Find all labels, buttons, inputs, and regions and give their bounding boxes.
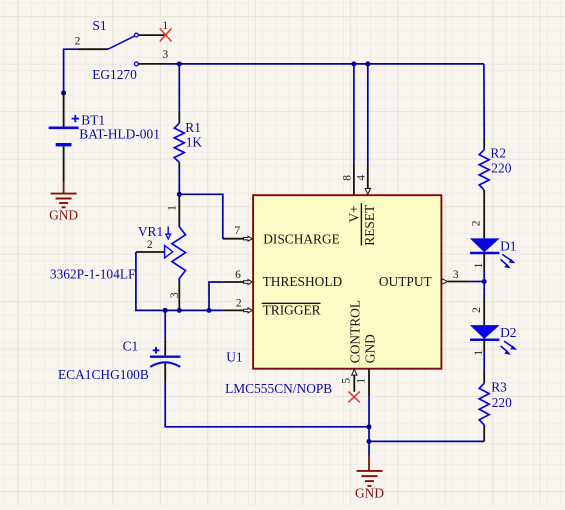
node: rail-pin8 junction <box>351 61 356 66</box>
svg-text:2: 2 <box>236 298 242 310</box>
svg-text:220: 220 <box>492 395 512 410</box>
wire: battery plus to switch S1 pin 2 <box>64 49 79 93</box>
resistor R2 <box>479 138 489 203</box>
svg-text:BT1: BT1 <box>81 112 105 127</box>
svg-text:BAT-HLD-001: BAT-HLD-001 <box>79 126 160 141</box>
svg-text:1: 1 <box>473 262 485 268</box>
svg-text:C1: C1 <box>123 339 139 354</box>
no-ERC marker (red X) on S1 pin 1 <box>160 28 172 41</box>
svg-text:1: 1 <box>166 205 178 211</box>
wire: D2 to R3 <box>483 352 485 371</box>
wire: rail to R1 <box>178 64 180 111</box>
svg-text:4: 4 <box>355 175 367 181</box>
pin 5 stub (CONTROL) <box>353 375 355 392</box>
no-ERC marker (red X) on U1 pin 5 <box>348 392 359 403</box>
svg-text:TRIGGER: TRIGGER <box>263 303 321 318</box>
wire: R1 to node A <box>178 168 180 195</box>
svg-text:THRESHOLD: THRESHOLD <box>263 274 343 289</box>
switch S1 <box>78 33 166 66</box>
resistor R1 <box>174 111 184 168</box>
svg-text:5: 5 <box>340 378 352 384</box>
svg-text:LMC555CN/NOPB: LMC555CN/NOPB <box>225 381 332 396</box>
wire: node A to U1 pin 7 <box>179 194 223 238</box>
LED D2 <box>470 295 517 355</box>
pin 5 input arrow <box>352 369 357 375</box>
svg-text:R1: R1 <box>185 120 201 135</box>
svg-text:3362P-1-104LF: 3362P-1-104LF <box>50 267 136 282</box>
node: rail-R1 junction <box>177 61 182 66</box>
wire: VR1 wiper to trigger rail <box>136 252 165 310</box>
svg-text:2: 2 <box>147 239 153 251</box>
wire: top power rail from S1 pin 3 to R2 <box>166 63 484 65</box>
wire: trigger rail to C1 <box>164 310 166 339</box>
svg-text:6: 6 <box>235 269 241 281</box>
wire: D1 to output node <box>483 272 485 295</box>
svg-text:D2: D2 <box>500 325 516 340</box>
node: rail-pin4 junction <box>365 61 370 66</box>
svg-text:CONTROL: CONTROL <box>348 300 363 363</box>
pin 3 stub (OUTPUT) <box>448 281 471 283</box>
pin 4 stub (RESET) <box>367 165 369 190</box>
node: C1 junction <box>163 308 168 313</box>
wire: rail corner down to R2 <box>483 64 485 138</box>
wire: trigger rail <box>165 309 223 311</box>
pin 6 input arrow <box>244 280 253 285</box>
wire: bottom right rail <box>369 440 484 442</box>
svg-text:1: 1 <box>162 20 168 32</box>
pin 1 stub (GND) <box>368 369 370 397</box>
wire: R2 to D1 <box>483 202 485 238</box>
svg-text:3: 3 <box>453 269 459 281</box>
svg-text:1K: 1K <box>186 135 203 150</box>
ground (bottom) <box>357 456 383 486</box>
LED D1 <box>470 238 515 272</box>
node: VR1 pin3 junction <box>177 308 182 313</box>
svg-text:2: 2 <box>75 36 81 48</box>
svg-text:2: 2 <box>471 220 483 226</box>
node: right rail junction <box>367 439 372 444</box>
svg-text:OUTPUT: OUTPUT <box>379 274 432 289</box>
svg-text:1: 1 <box>473 350 485 356</box>
node: battery-switch junction <box>61 91 66 96</box>
svg-text:7: 7 <box>234 225 240 237</box>
wire: pin 1 to ground rails <box>368 397 370 456</box>
pin 3 output arrow <box>442 279 448 284</box>
svg-text:U1: U1 <box>226 350 242 365</box>
svg-text:V+: V+ <box>347 205 362 222</box>
node A: R1/VR1/discharge junction <box>177 192 182 197</box>
svg-text:GND: GND <box>49 208 78 223</box>
resistor R3 <box>479 371 489 441</box>
svg-text:D1: D1 <box>500 238 516 253</box>
svg-text:DISCHARGE: DISCHARGE <box>263 231 340 246</box>
svg-text:8: 8 <box>342 175 354 181</box>
node: threshold branch junction <box>207 308 212 313</box>
svg-text:S1: S1 <box>92 18 106 33</box>
potentiometer VR1 <box>136 197 186 311</box>
pin 6 stub (THRESHOLD) <box>223 281 244 283</box>
svg-text:2: 2 <box>471 307 483 313</box>
pin 7 input arrow <box>244 236 253 241</box>
svg-text:3: 3 <box>169 292 181 298</box>
svg-text:R3: R3 <box>491 380 507 395</box>
svg-text:3: 3 <box>162 49 168 61</box>
svg-text:R2: R2 <box>490 146 506 161</box>
svg-text:EG1270: EG1270 <box>92 67 137 82</box>
capacitor C1 <box>150 340 181 384</box>
pin 8 stub (V+) <box>353 165 355 195</box>
svg-text:220: 220 <box>491 160 511 175</box>
op-amp U1 LMC555CN/NOPB body <box>253 195 441 369</box>
battery BT1 <box>49 93 79 182</box>
wire: rail to pin 8 <box>353 64 355 165</box>
svg-text:ECA1CHG100B: ECA1CHG100B <box>58 367 149 382</box>
node: output-LED junction <box>482 279 487 284</box>
wire: output to LED column <box>471 281 484 283</box>
svg-text:GND: GND <box>363 334 378 363</box>
pin 7 stub (DISCHARGE) <box>223 238 244 240</box>
svg-text:1: 1 <box>356 378 368 384</box>
wire: threshold branch <box>209 282 223 310</box>
pin 2 input arrow <box>244 308 253 313</box>
svg-text:GND: GND <box>355 485 384 500</box>
svg-text:RESET: RESET <box>362 205 377 246</box>
node: left rail junction <box>367 424 372 429</box>
ground (battery) <box>51 182 77 207</box>
svg-text:VR1: VR1 <box>138 224 163 239</box>
pin 2 stub (TRIGGER) <box>223 309 244 311</box>
wire: C1 to bottom left rail <box>165 383 369 426</box>
wire: rail to pin 4 <box>367 64 369 165</box>
pin 4 input arrow <box>365 189 370 195</box>
